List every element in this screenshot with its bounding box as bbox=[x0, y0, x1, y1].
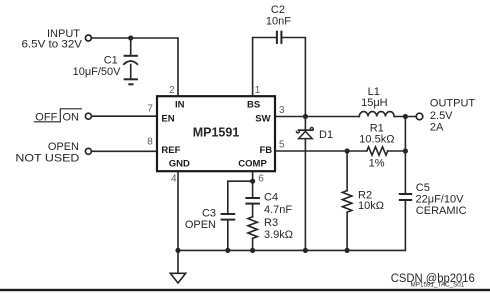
svg-text:GND: GND bbox=[169, 159, 190, 170]
svg-text:COMP: COMP bbox=[238, 159, 267, 170]
svg-text:SW: SW bbox=[255, 113, 270, 124]
svg-text:C1: C1 bbox=[104, 54, 118, 66]
svg-text:6.5V to 32V: 6.5V to 32V bbox=[22, 39, 83, 51]
svg-text:5: 5 bbox=[279, 140, 285, 151]
svg-text:6: 6 bbox=[258, 174, 264, 185]
svg-text:FB: FB bbox=[260, 145, 273, 156]
svg-text:C3: C3 bbox=[202, 207, 216, 219]
svg-text:3.9kΩ: 3.9kΩ bbox=[264, 229, 293, 241]
svg-text:2A: 2A bbox=[430, 121, 444, 133]
svg-text:10kΩ: 10kΩ bbox=[358, 200, 384, 212]
svg-text:7: 7 bbox=[147, 104, 153, 115]
svg-text:1: 1 bbox=[255, 85, 261, 96]
svg-text:REF: REF bbox=[161, 145, 180, 156]
svg-text:MP1591_TAC_S01: MP1591_TAC_S01 bbox=[411, 281, 465, 288]
svg-text:10μF/50V: 10μF/50V bbox=[73, 66, 122, 78]
svg-text:1%: 1% bbox=[369, 157, 385, 169]
svg-text:NOT USED: NOT USED bbox=[15, 153, 79, 165]
svg-text:22μF/10V: 22μF/10V bbox=[416, 194, 465, 206]
svg-text:2.5V: 2.5V bbox=[430, 110, 453, 122]
svg-text:3: 3 bbox=[279, 105, 285, 116]
svg-text:BS: BS bbox=[247, 100, 260, 111]
svg-text:8: 8 bbox=[147, 137, 153, 148]
svg-text:2: 2 bbox=[169, 85, 175, 96]
svg-text:D1: D1 bbox=[319, 129, 333, 141]
svg-text:EN: EN bbox=[161, 113, 174, 124]
svg-text:4.7nF: 4.7nF bbox=[264, 204, 292, 216]
svg-text:C4: C4 bbox=[264, 192, 278, 204]
svg-text:C5: C5 bbox=[416, 182, 430, 194]
svg-text:OUTPUT: OUTPUT bbox=[430, 97, 476, 109]
svg-text:4: 4 bbox=[171, 173, 177, 184]
svg-text:IN: IN bbox=[175, 100, 185, 111]
svg-text:MP1591: MP1591 bbox=[193, 126, 240, 140]
svg-text:10.5kΩ: 10.5kΩ bbox=[359, 133, 394, 145]
svg-text:OPEN: OPEN bbox=[48, 141, 79, 153]
svg-text:OPEN: OPEN bbox=[185, 219, 216, 231]
svg-text:R3: R3 bbox=[264, 217, 278, 229]
svg-text:15μH: 15μH bbox=[361, 97, 388, 109]
svg-text:10nF: 10nF bbox=[266, 15, 291, 27]
svg-text:CERAMIC: CERAMIC bbox=[416, 205, 467, 217]
svg-text:C2: C2 bbox=[271, 4, 285, 16]
svg-text:ON: ON bbox=[63, 112, 80, 124]
